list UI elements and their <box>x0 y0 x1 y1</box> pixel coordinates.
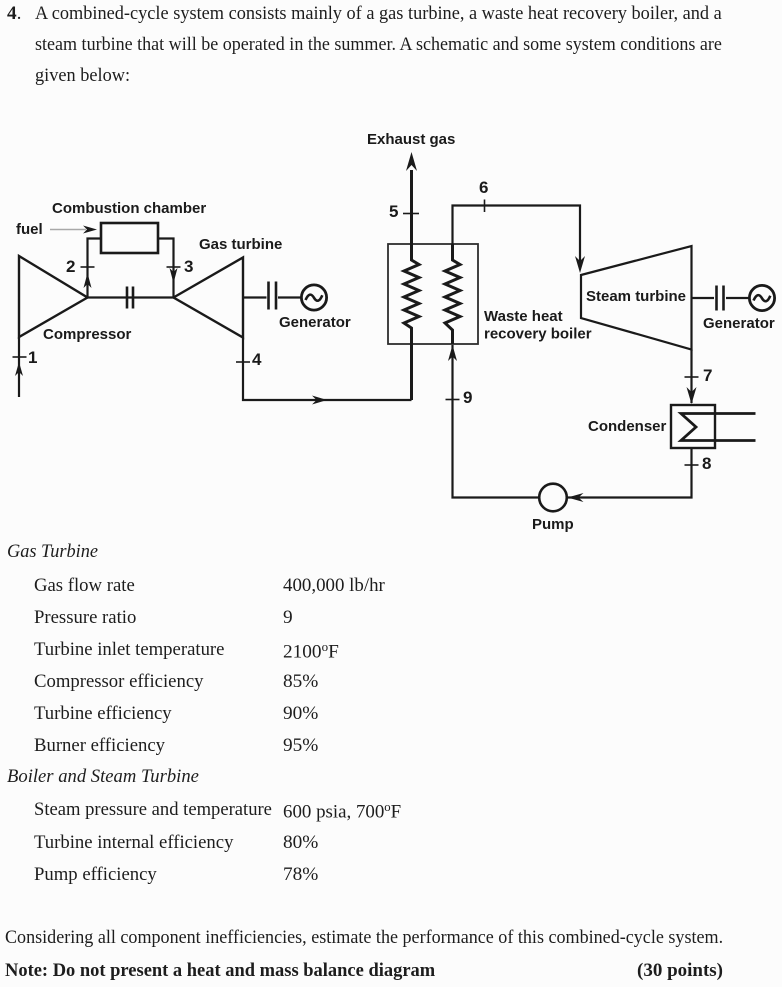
svg-text:Waste heat: Waste heat <box>484 308 563 325</box>
node 3 <box>167 257 194 283</box>
svg-text:8: 8 <box>702 454 711 473</box>
svg-text:Gas turbine: Gas turbine <box>199 236 282 253</box>
node 8 <box>685 454 712 473</box>
svg-text:2: 2 <box>66 257 75 276</box>
svg-text:Exhaust gas: Exhaust gas <box>367 131 455 148</box>
shaft: compressor to gas turbine with coupling <box>88 287 175 309</box>
compressor <box>19 256 132 343</box>
exhaust gas arrow <box>367 131 455 171</box>
pump <box>532 484 574 533</box>
shaft: steam turbine to generator with coupling <box>692 286 750 311</box>
svg-text:Generator: Generator <box>279 314 351 331</box>
wire: pump to boiler feedwater <box>448 345 540 498</box>
svg-text:Compressor: Compressor <box>43 326 132 343</box>
svg-text:7: 7 <box>703 366 712 385</box>
node 2 <box>66 257 95 288</box>
svg-text:fuel: fuel <box>16 221 43 238</box>
svg-text:Condenser: Condenser <box>588 418 667 435</box>
wire: steam turbine to condenser <box>687 350 697 405</box>
svg-text:4: 4 <box>252 350 262 369</box>
node 1 <box>13 348 38 376</box>
wire: condenser to pump <box>568 449 692 502</box>
condenser <box>588 405 715 448</box>
node 5 <box>389 202 419 221</box>
svg-text:recovery boiler: recovery boiler <box>484 326 592 343</box>
shaft: gas turbine to generator with coupling <box>243 282 302 310</box>
wire: boiler steam outlet to steam turbine <box>453 206 586 274</box>
gas turbine <box>174 236 283 338</box>
svg-text:1: 1 <box>28 348 37 367</box>
svg-text:3: 3 <box>184 257 193 276</box>
closing lines <box>5 928 723 947</box>
svg-text:Combustion chamber: Combustion chamber <box>52 200 206 217</box>
svg-text:9: 9 <box>463 388 472 407</box>
generator G2 (steam side) <box>703 285 775 332</box>
svg-text:Steam turbine: Steam turbine <box>586 288 686 305</box>
node 4 <box>236 350 262 369</box>
svg-text:Pump: Pump <box>532 516 574 533</box>
wire: compressor outlet to combustion chamber <box>88 239 102 298</box>
generator G1 (gas side) <box>279 285 351 331</box>
svg-text:6: 6 <box>479 178 488 197</box>
waste heat recovery boiler <box>388 244 592 344</box>
paragraph <box>7 4 21 23</box>
spec table <box>7 542 98 561</box>
wire: compressor inlet <box>18 337 20 397</box>
fuel inlet arrow <box>16 221 97 238</box>
combustion chamber <box>52 200 206 253</box>
svg-text:5: 5 <box>389 202 398 221</box>
steam turbine <box>581 246 692 350</box>
gas path coil in boiler <box>404 170 419 400</box>
wire: combustion chamber to gas turbine <box>158 239 174 298</box>
node 9 <box>446 388 473 407</box>
wire: gas turbine exhaust to boiler <box>243 338 412 405</box>
cooling water tube through condenser <box>681 414 756 441</box>
steam coil in boiler <box>445 244 460 344</box>
node 6 <box>479 178 488 212</box>
node 7 <box>685 366 713 385</box>
svg-text:Generator: Generator <box>703 315 775 332</box>
